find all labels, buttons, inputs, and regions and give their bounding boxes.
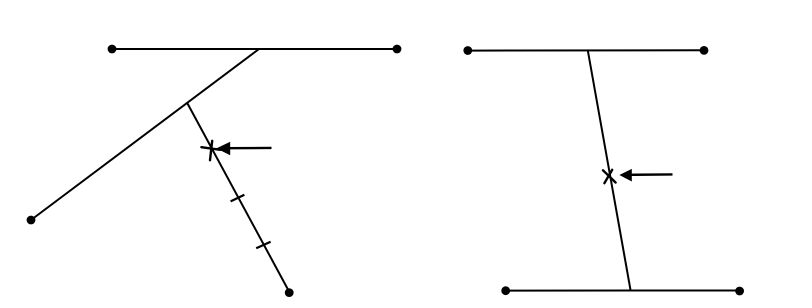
left figure long diagonal wire: [31, 49, 259, 220]
right figure arrow: [619, 169, 672, 182]
left figure branch wire: [188, 104, 289, 291]
right figure bottom horizontal wire: [506, 290, 740, 292]
right figure top-right node dot: [700, 46, 709, 55]
right figure top-left node dot: [463, 46, 472, 55]
left figure arrow: [216, 142, 271, 155]
left figure top horizontal wire: [112, 48, 397, 50]
left figure diagonal lower-left node dot: [27, 216, 36, 225]
right figure bottom-left node dot: [501, 286, 510, 295]
left figure tick mark 2: [256, 242, 270, 249]
right figure X break mark: [603, 170, 616, 183]
left figure top-left node dot: [108, 45, 117, 54]
left figure branch bottom node dot: [285, 288, 294, 297]
left figure X break mark: [201, 141, 220, 161]
right figure near-vertical wire: [588, 51, 631, 290]
left figure tick mark 1: [231, 195, 245, 202]
right figure top horizontal wire: [468, 49, 704, 51]
right figure bottom-right node dot: [735, 287, 744, 296]
left figure top-right node dot: [393, 45, 402, 54]
